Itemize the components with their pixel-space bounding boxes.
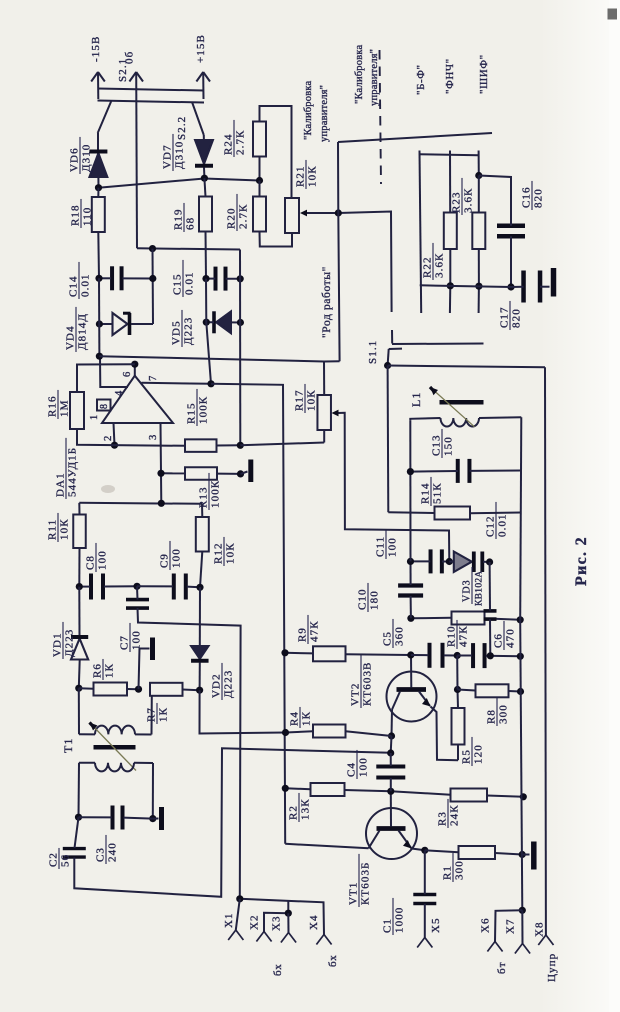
- label C2: [48, 848, 72, 869]
- capacitor C8: [91, 574, 103, 600]
- capacitor C12: [484, 611, 497, 619]
- svg-text:240: 240: [107, 842, 119, 862]
- label R15: [186, 389, 210, 426]
- ground at C3: [153, 807, 162, 830]
- wire VD6 to node: [97, 177, 99, 188]
- label R8: [486, 697, 510, 726]
- resistor R14: [435, 507, 471, 520]
- wire R11 bottom: [78, 548, 80, 587]
- node pin6: [131, 361, 138, 368]
- svg-text:150: 150: [443, 436, 455, 456]
- capacitor C6: [473, 643, 485, 668]
- node VD6-R18: [95, 184, 102, 191]
- node R3-gnd bus: [520, 793, 527, 800]
- svg-text:100: 100: [131, 630, 143, 650]
- label R11: [47, 513, 71, 542]
- pin 3 label: [148, 434, 159, 440]
- svg-text:R19: R19: [173, 208, 185, 230]
- varicap VD3: [454, 552, 483, 573]
- wire C13 left: [410, 470, 457, 473]
- wire collector to C4: [390, 736, 393, 753]
- wire R3 left: [391, 791, 451, 794]
- label R13: [198, 473, 222, 510]
- label X1: [223, 912, 235, 928]
- wire R12 bottom: [200, 552, 202, 588]
- svg-text:2: 2: [103, 435, 114, 441]
- svg-text:1К: 1К: [158, 707, 170, 722]
- wire VD7 to node: [203, 168, 205, 178]
- wire B-F line: [420, 151, 422, 314]
- wire 152 column: [152, 249, 155, 324]
- svg-text:-15В: -15В: [90, 36, 102, 62]
- wire Rezh raboty vertical: [338, 142, 340, 361]
- svg-text:3.6К: 3.6К: [463, 188, 475, 214]
- wire C9 right: [187, 586, 200, 589]
- svg-text:С15: С15: [172, 273, 184, 295]
- svg-text:47К: 47К: [458, 625, 470, 647]
- node VT2 base C5: [407, 651, 414, 658]
- wire C3 right: [124, 818, 153, 819]
- svg-text:Д310: Д310: [174, 141, 186, 169]
- node C8-C7: [133, 583, 140, 590]
- label X4: [308, 914, 320, 930]
- svg-text:"Калибровка: "Калибровка: [303, 80, 314, 140]
- label R9: [297, 615, 321, 644]
- label C13: [431, 429, 455, 458]
- pin 8 label: [99, 403, 110, 409]
- svg-text:R2: R2: [288, 805, 300, 820]
- wire T1 primary right riser: [151, 696, 153, 735]
- svg-text:110: 110: [82, 207, 94, 226]
- wire R4 right: [346, 731, 392, 736]
- svg-text:КВ102А: КВ102А: [475, 570, 485, 606]
- label R5: [461, 737, 485, 766]
- capacitor C16: [497, 226, 525, 237]
- ground at R1: [522, 842, 534, 870]
- label 0b: [124, 51, 136, 64]
- svg-text:100К: 100К: [198, 396, 210, 424]
- resistor R5: [452, 708, 465, 745]
- label X3: [271, 915, 283, 931]
- label Ris 2: [573, 536, 590, 586]
- wire C16 top: [479, 176, 511, 226]
- svg-text:10К: 10К: [307, 165, 319, 187]
- transistor VT1 base bar: [377, 826, 406, 831]
- svg-text:0.01: 0.01: [184, 271, 196, 295]
- svg-text:VD3: VD3: [462, 579, 473, 602]
- label VD1: [52, 622, 76, 659]
- svg-text:R16: R16: [47, 395, 59, 417]
- svg-text:VD5: VD5: [171, 320, 183, 345]
- svg-text:С2: С2: [48, 852, 60, 867]
- svg-text:С4: С4: [346, 762, 358, 777]
- pot wiper R21 arrow: [300, 210, 307, 217]
- wire T1 primary right lead: [135, 733, 152, 735]
- wire R8 right: [509, 690, 521, 693]
- node R13-gnd: [237, 470, 244, 477]
- inductor L1 core bar: [440, 400, 484, 405]
- node R5-R8: [454, 686, 461, 693]
- wire R10 left: [411, 617, 452, 620]
- wire VT1 base lead: [390, 791, 392, 826]
- wire R17 bottom: [323, 430, 325, 443]
- svg-text:VT2: VT2: [350, 683, 362, 706]
- svg-text:Х1: Х1: [223, 912, 235, 928]
- label R4: [289, 707, 313, 728]
- svg-text:100: 100: [387, 537, 399, 557]
- svg-text:R22: R22: [422, 256, 434, 278]
- resistor R13: [185, 467, 217, 480]
- wire R18 to C14 row: [97, 232, 100, 278]
- svg-text:300: 300: [454, 860, 466, 880]
- label SHIF: [478, 54, 490, 94]
- wire R9 left: [285, 652, 313, 655]
- resistor R15: [185, 439, 217, 452]
- wire C6 left: [457, 655, 472, 657]
- label R24: [223, 120, 247, 157]
- label bh input 1: [272, 963, 284, 976]
- terminal X3: [281, 913, 296, 942]
- label X7: [505, 918, 517, 934]
- label R16: [47, 390, 71, 419]
- svg-text:+15В: +15В: [195, 34, 207, 63]
- ground at R13: [241, 460, 251, 483]
- svg-text:С5: С5: [382, 631, 394, 646]
- wire T1 secondary right lead: [134, 762, 153, 764]
- label VT2: [350, 655, 374, 708]
- svg-text:Х6: Х6: [480, 917, 492, 933]
- wire VD2 bottom: [199, 663, 201, 691]
- node R8-gnd bus: [517, 688, 524, 695]
- wire C11 right: [442, 561, 449, 563]
- wire VT1 emitter: [412, 849, 425, 851]
- wire R17 top: [323, 362, 325, 396]
- wire VD4 left: [99, 323, 112, 325]
- svg-text:7: 7: [148, 375, 159, 381]
- wire R17 wiper: [339, 413, 450, 562]
- svg-text:R9: R9: [297, 627, 309, 642]
- svg-text:С13: С13: [431, 434, 443, 456]
- wire R16 bottom / pin2 line: [77, 429, 185, 446]
- svg-text:R14: R14: [420, 482, 432, 504]
- terminal X1: [228, 899, 243, 940]
- svg-text:Х5: Х5: [430, 917, 442, 933]
- svg-text:100: 100: [97, 550, 109, 570]
- node R2-rail: [282, 785, 289, 792]
- terminal X2: [256, 932, 271, 942]
- wire R19 top: [204, 178, 205, 196]
- supply arrow 0: [129, 72, 143, 82]
- svg-text:51К: 51К: [432, 482, 444, 504]
- svg-text:VD1: VD1: [52, 632, 64, 657]
- wire C14 right: [123, 277, 153, 279]
- wire C5 right: [444, 654, 457, 656]
- svg-text:1М: 1М: [59, 400, 71, 417]
- label R14: [420, 477, 444, 506]
- transformer T1 core bar: [94, 745, 136, 750]
- svg-text:VD4: VD4: [65, 325, 77, 350]
- node R23-C16: [475, 172, 482, 179]
- resistor R7: [150, 683, 183, 696]
- node C5-C6: [454, 652, 461, 659]
- transformer T1 adjustment arrow: [90, 723, 137, 771]
- node X2X3: [285, 910, 292, 917]
- wire C2 to collector riser: [74, 748, 390, 897]
- svg-text:R17: R17: [294, 389, 306, 411]
- svg-text:Х3: Х3: [271, 915, 283, 931]
- wire VT2 emitter: [431, 707, 459, 761]
- wire S2.2 to VD7: [203, 135, 205, 150]
- zener VD4: [113, 313, 131, 335]
- label VD7: [162, 134, 186, 171]
- wire C11 left: [411, 560, 431, 562]
- svg-text:R3: R3: [437, 811, 449, 826]
- node C11 left: [407, 558, 414, 565]
- pin 7 label: [148, 375, 159, 381]
- svg-text:VD6: VD6: [69, 147, 81, 172]
- wire R24 top bracket: [260, 106, 292, 198]
- label X2: [249, 914, 261, 930]
- svg-text:КТ603Б: КТ603Б: [360, 862, 372, 905]
- transistor VT1 collector leg: [369, 831, 380, 849]
- node 0b-152col: [149, 245, 156, 252]
- svg-text:бх: бх: [272, 963, 284, 976]
- svg-text:С7: С7: [119, 635, 131, 650]
- wire VCO base column: [409, 421, 411, 562]
- wire C6 link down: [456, 656, 458, 690]
- node wiper-R21 net: [335, 209, 342, 216]
- svg-text:1К: 1К: [301, 711, 313, 726]
- wire C17 right: [540, 286, 550, 288]
- wire C12 bottom: [489, 619, 491, 656]
- terminal X6: [487, 942, 502, 952]
- wire R1 left: [425, 850, 459, 852]
- svg-text:R24: R24: [223, 133, 235, 155]
- node R22-bus: [447, 282, 454, 289]
- svg-text:6: 6: [122, 371, 133, 377]
- wire C13 right: [470, 470, 522, 472]
- svg-text:Цупр: Цупр: [546, 953, 558, 982]
- svg-text:8: 8: [99, 403, 110, 409]
- node C8 left: [76, 583, 83, 590]
- wire VD1 bottom: [78, 660, 81, 688]
- svg-text:56: 56: [60, 854, 72, 867]
- node R6-gnd: [135, 686, 142, 693]
- label VD3: [462, 567, 485, 606]
- wire calibration node bus: [99, 179, 260, 188]
- svg-text:Д223: Д223: [183, 317, 195, 345]
- node S1.1: [384, 362, 391, 369]
- svg-text:С1: С1: [382, 918, 394, 933]
- svg-text:0.01: 0.01: [80, 273, 92, 297]
- svg-text:"Калибровка: "Калибровка: [354, 44, 365, 104]
- svg-text:R8: R8: [486, 709, 498, 724]
- label T1: [61, 737, 75, 753]
- resistor R22: [444, 213, 457, 250]
- wire link B-F to SHIF: [420, 154, 479, 155]
- label Uupr: [546, 953, 558, 982]
- label X5: [430, 917, 442, 933]
- wire VD2 top: [199, 587, 201, 646]
- svg-text:"ФНЧ": "ФНЧ": [444, 58, 456, 94]
- svg-text:R23: R23: [451, 191, 463, 213]
- svg-text:R6: R6: [92, 663, 104, 678]
- pin 4 label: [114, 390, 125, 396]
- label C17: [499, 301, 523, 330]
- node C14 right: [149, 275, 156, 282]
- wire R22 bottom: [449, 249, 451, 286]
- capacitor C10: [398, 586, 423, 596]
- svg-text:3.6К: 3.6К: [434, 253, 446, 279]
- node VT1 base: [387, 788, 394, 795]
- svg-text:100: 100: [171, 548, 183, 568]
- label S1.1: [367, 340, 379, 364]
- svg-text:Х2: Х2: [249, 914, 261, 930]
- wire VD3 left: [449, 561, 454, 563]
- ground between R6 R7: [139, 638, 153, 690]
- label C5: [382, 619, 406, 648]
- label -15V: [90, 36, 102, 62]
- node VD1-R6-T1: [75, 685, 82, 692]
- svg-text:0.01: 0.01: [497, 513, 509, 537]
- label DA1: [55, 438, 79, 499]
- svg-text:R1: R1: [442, 865, 454, 880]
- svg-text:С11: С11: [375, 536, 387, 557]
- svg-text:820: 820: [511, 308, 523, 328]
- node T1-C3 right: [149, 815, 156, 822]
- svg-text:бт: бт: [496, 961, 508, 974]
- svg-text:С6: С6: [493, 633, 505, 648]
- wire C10 bottom: [410, 596, 412, 618]
- resistor R3: [451, 789, 488, 802]
- wire V- rail to opamp: [98, 278, 100, 356]
- svg-text:С17: С17: [499, 306, 511, 328]
- resistor R2: [311, 783, 345, 796]
- label R2: [288, 793, 312, 822]
- transistor VT2 base bar: [397, 687, 427, 692]
- wire R17 bottom line: [240, 443, 324, 446]
- wire C15 right: [226, 278, 241, 280]
- smudge: [101, 485, 115, 493]
- svg-text:С3: С3: [95, 847, 107, 862]
- wire R14 right: [470, 512, 521, 515]
- wire VT1 collector: [285, 844, 368, 849]
- node R24-R20: [256, 177, 263, 184]
- node R4-rail: [282, 729, 289, 736]
- switch S2.1 blade: [98, 101, 112, 134]
- label R1: [442, 853, 466, 882]
- wire R2 right: [345, 790, 391, 791]
- wire R11 top: [78, 503, 80, 515]
- svg-text:управителя": управителя": [369, 49, 380, 106]
- node C16-bus: [507, 283, 514, 290]
- capacitor C9: [174, 574, 186, 600]
- label R18: [70, 199, 94, 228]
- capacitor C14: [112, 266, 122, 290]
- svg-text:10К: 10К: [225, 542, 237, 564]
- svg-text:S2.2: S2.2: [176, 116, 188, 140]
- svg-text:DA1: DA1: [55, 472, 67, 497]
- wire X2X3 sub bus: [264, 902, 288, 932]
- svg-text:R5: R5: [461, 749, 473, 764]
- node VD5 right: [237, 319, 244, 326]
- label R20: [226, 194, 250, 231]
- transistor VT1 circle: [366, 808, 417, 859]
- svg-text:180: 180: [369, 590, 381, 610]
- label C12: [485, 502, 509, 539]
- wire pin3 feed line: [79, 503, 202, 504]
- label R12: [213, 537, 237, 566]
- resistor R19: [199, 197, 212, 232]
- node T1-C3 left: [75, 814, 82, 821]
- svg-text:47К: 47К: [309, 620, 321, 642]
- wire C5 left: [411, 654, 429, 656]
- svg-text:24К: 24К: [449, 804, 461, 826]
- wire pin4 line: [99, 356, 324, 361]
- connector bar 2: [98, 101, 205, 103]
- capacitor C1: [413, 895, 436, 904]
- wire tank right column: [520, 417, 521, 620]
- wire R20 top: [259, 181, 261, 197]
- svg-text:бх: бх: [327, 954, 339, 967]
- svg-text:"ШИФ": "ШИФ": [478, 54, 490, 94]
- label R3: [437, 799, 461, 828]
- wire FNCH line: [449, 151, 451, 213]
- wire X1 bus: [240, 899, 324, 935]
- wire R21 wiper: [307, 212, 338, 214]
- wire C8 right: [104, 585, 137, 587]
- label VD5: [171, 310, 195, 347]
- wire S2.1 to VD6: [97, 133, 99, 150]
- svg-text:4: 4: [114, 390, 125, 396]
- terminal X5: [417, 938, 432, 948]
- wire R13 left: [161, 472, 185, 474]
- wire V+ rail to opamp: [206, 279, 211, 384]
- wire L1 left lead: [410, 418, 440, 421]
- label C11: [375, 530, 399, 559]
- wire ground bus: [520, 620, 522, 911]
- svg-text:Х8: Х8: [534, 921, 546, 937]
- wire R20-R21 bottom bracket: [260, 232, 293, 247]
- resistor R10: [452, 612, 485, 625]
- resistor R11: [73, 515, 86, 549]
- pin 2 stub: [114, 423, 115, 445]
- svg-text:Д310: Д310: [81, 144, 93, 172]
- wire VT2 collector: [391, 710, 394, 737]
- wire R19 to C15 row: [205, 232, 208, 279]
- wire C8 left: [79, 586, 90, 588]
- svg-text:R20: R20: [226, 207, 238, 229]
- label Kalibrovka upravitelya 1: [303, 80, 330, 142]
- svg-text:100: 100: [358, 757, 370, 777]
- wire X6 bracket: [495, 910, 522, 941]
- label VT1: [348, 854, 372, 907]
- svg-text:R11: R11: [47, 519, 59, 540]
- transistor VT1 emitter leg: [399, 831, 412, 849]
- node X1 riser: [236, 895, 243, 902]
- transistor VT2 emitter leg: [419, 692, 431, 707]
- switch S1.1 contact line: [392, 343, 484, 346]
- connector bar 1: [98, 89, 205, 91]
- svg-text:13К: 13К: [300, 798, 312, 820]
- switch contact stub R22: [449, 286, 451, 313]
- resistor R8: [476, 684, 509, 697]
- svg-text:С16: С16: [521, 186, 533, 208]
- capacitor C2: [63, 849, 86, 858]
- label C9: [159, 541, 183, 570]
- wire VT2 base lead: [410, 655, 412, 688]
- potentiometer R17: [317, 395, 331, 430]
